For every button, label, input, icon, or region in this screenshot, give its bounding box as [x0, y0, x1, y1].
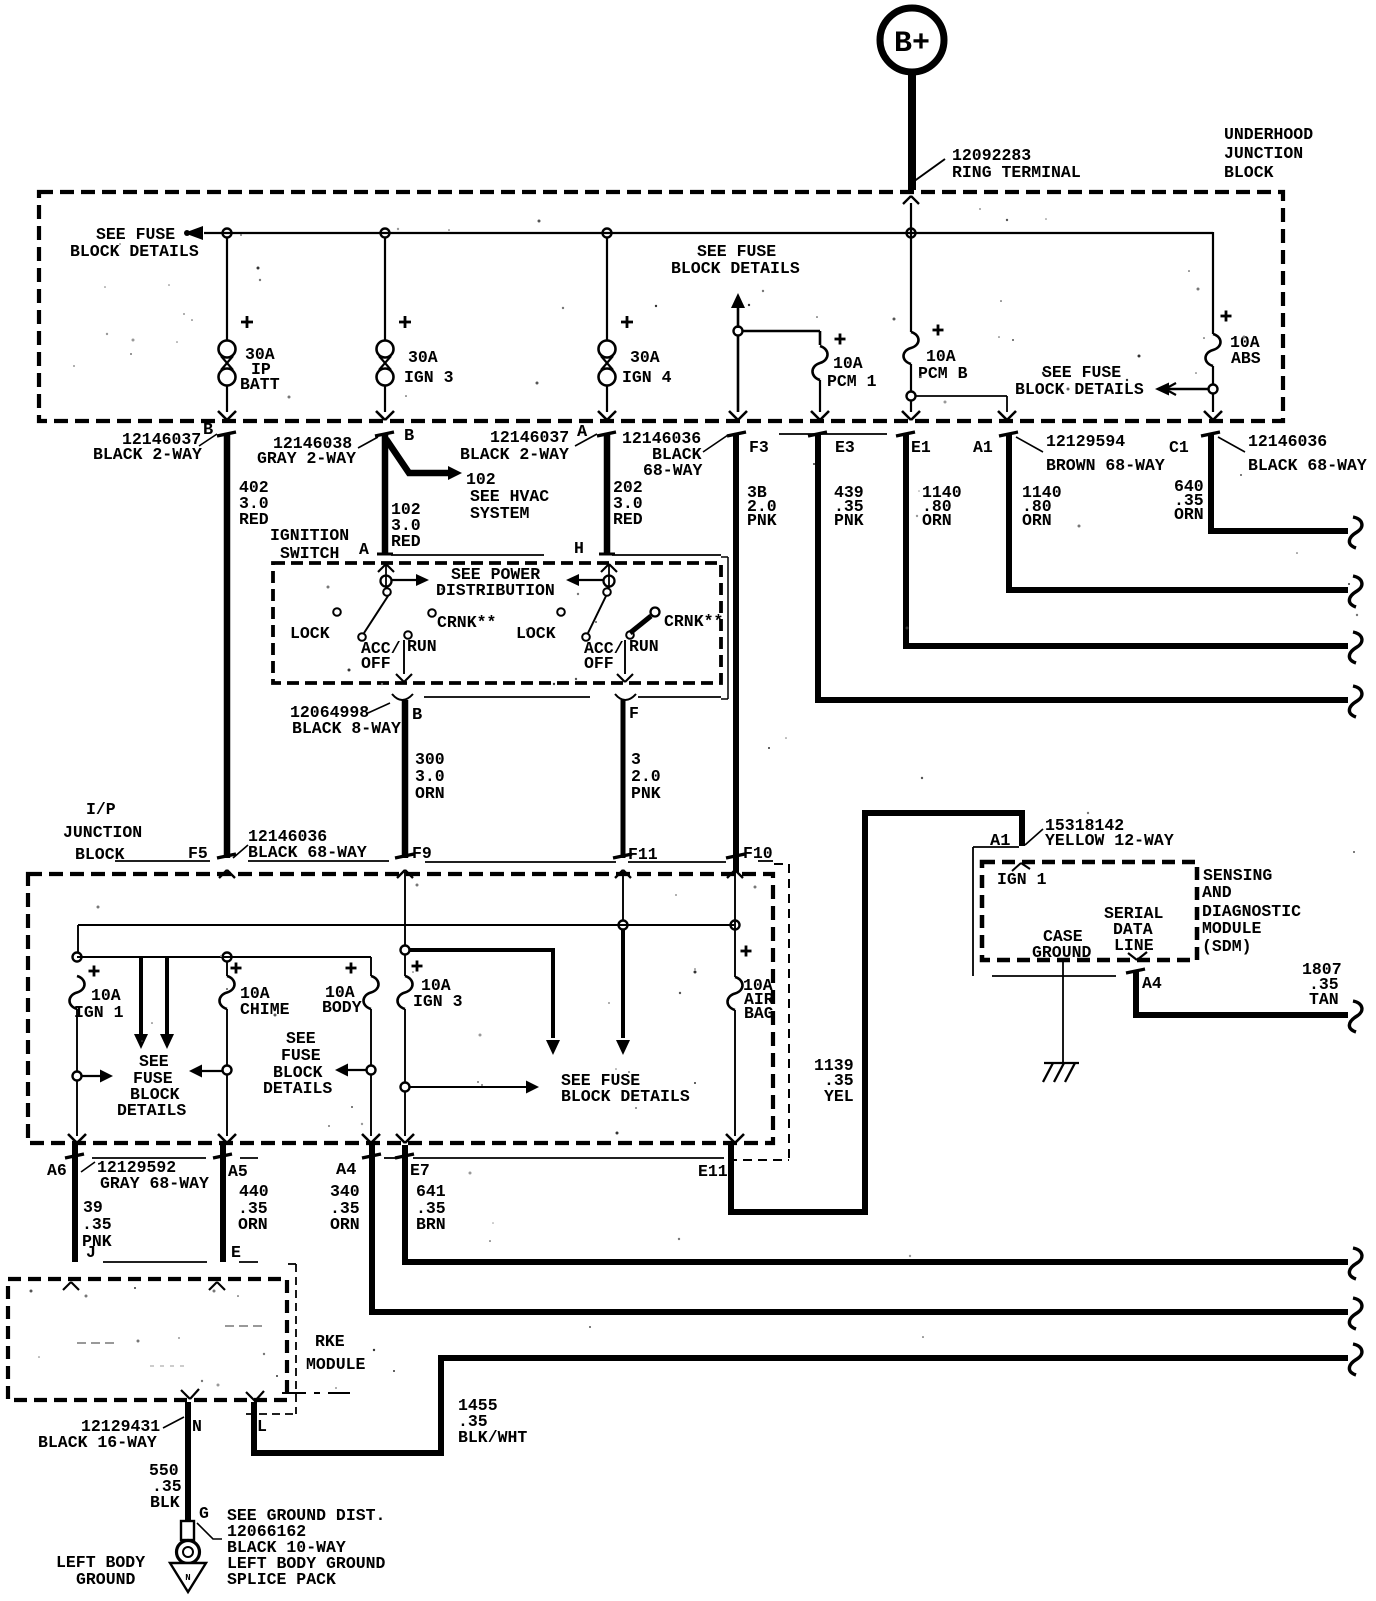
switch 2 RUN position [626, 631, 634, 639]
strip line ignition bottom F [638, 696, 721, 698]
fuse 10A IGN 3 (IP) [404, 954, 406, 976]
connector foot F10 [726, 854, 745, 858]
arrow up to fuse details [731, 293, 745, 308]
switch 1 CRNK position [428, 609, 436, 617]
ground chassis symbol [1044, 1062, 1079, 1064]
switch 2 lever [588, 596, 606, 633]
pin notch serial data line [1128, 953, 1137, 960]
leader splice pack [197, 1523, 222, 1539]
arrow down branch 2 to fuse details [165, 958, 169, 1035]
SDM inner dashed box [982, 862, 1197, 960]
svg-text:IGN 1: IGN 1 [74, 1003, 124, 1022]
wire 439 PNK E3 to right edge [818, 434, 1348, 700]
svg-text:RUN: RUN [407, 637, 437, 656]
svg-text:RED: RED [391, 532, 421, 551]
node junction BODY arrow [367, 1066, 376, 1075]
switch 1 contact [385, 564, 387, 588]
arrow exit F3 [729, 411, 738, 420]
arrow IGN1 to fuse details [82, 1075, 101, 1077]
wire B+ drop inside box [910, 203, 912, 332]
svg-text:E1: E1 [911, 438, 931, 457]
arrow entry F5 [219, 870, 227, 878]
svg-text:ORN: ORN [415, 784, 445, 803]
svg-text:E7: E7 [410, 1161, 430, 1180]
svg-text:E3: E3 [835, 438, 855, 457]
svg-text:B+: B+ [894, 27, 930, 61]
svg-text:J: J [86, 1243, 96, 1262]
connector cup F ignition bottom [615, 694, 636, 700]
svg-text:GRAY 2-WAY: GRAY 2-WAY [257, 449, 356, 468]
wire bus drop to fuse ABS [1212, 232, 1214, 334]
svg-text:JUNCTION: JUNCTION [63, 823, 142, 842]
leader 12092283 ring terminal [913, 159, 945, 182]
svg-text:IGNITION: IGNITION [270, 526, 349, 545]
connector flare A6 [65, 1154, 84, 1158]
dash-dot continuation right of RKE [282, 1392, 306, 1394]
node junction bus/IGN4 [603, 229, 612, 238]
wire 1140 ORN E1 to right edge [906, 434, 1348, 646]
RKE faint interior marks [225, 1325, 266, 1327]
svg-text:A4: A4 [336, 1161, 356, 1180]
svg-text:GROUND: GROUND [76, 1570, 136, 1589]
ground splice triangle [170, 1563, 206, 1592]
svg-text:MODULE: MODULE [1202, 919, 1262, 938]
svg-text:BLACK 16-WAY: BLACK 16-WAY [38, 1433, 157, 1452]
wire fuse IGN 4 to connector A [606, 385, 608, 412]
wire IGN1 below fuse [76, 1009, 78, 1071]
fuse 30A IGN 3 [377, 341, 394, 358]
svg-text:YELLOW 12-WAY: YELLOW 12-WAY [1045, 831, 1174, 850]
switch 1 ACC contact [358, 633, 366, 641]
svg-text:DETAILS: DETAILS [263, 1079, 332, 1098]
node junction PCM B / A1 link [907, 392, 916, 401]
svg-text:BLK: BLK [150, 1493, 180, 1512]
node junction CHIME arrow [223, 1066, 232, 1075]
wire 1140 ORN A1 to right edge [1009, 434, 1348, 590]
wire IGN3 to exit E7 [404, 1092, 406, 1136]
strip line ignition top H [612, 554, 721, 556]
svg-text:68-WAY: 68-WAY [643, 461, 703, 480]
svg-text:E: E [231, 1243, 241, 1262]
wire 550 BLK N to ground [185, 1402, 191, 1521]
arrow exit E3 [811, 411, 820, 420]
pin notch RKE N [181, 1390, 190, 1399]
svg-text:C1: C1 [1169, 438, 1189, 457]
switch 1 LOCK position [333, 608, 341, 616]
svg-text:BRN: BRN [416, 1215, 446, 1234]
arrow exit IP BATT [218, 411, 227, 420]
wire fuse ABS to connector C1 [1212, 393, 1214, 412]
connector flare A5 [213, 1154, 232, 1158]
wire PCM B to connector E1 [910, 400, 912, 412]
svg-text:L: L [257, 1417, 267, 1436]
svg-text:BATT: BATT [240, 375, 280, 394]
svg-text:ORN: ORN [1174, 505, 1204, 524]
I/P block outer dashed edge [788, 864, 790, 1160]
fuse 10A PCM 1 [813, 346, 828, 380]
node junction F5/y957 [223, 953, 232, 962]
svg-text:A1: A1 [990, 832, 1010, 851]
arrow entry F9 [397, 870, 405, 878]
offpage hook 1455 wire [1349, 1344, 1362, 1375]
svg-text:BLK/WHT: BLK/WHT [458, 1428, 527, 1447]
wire IGN1 to exit A6 [76, 1081, 78, 1136]
scan speckles [448, 229, 450, 231]
svg-text:F11: F11 [628, 845, 658, 864]
svg-text:BLACK 2-WAY: BLACK 2-WAY [93, 445, 202, 464]
svg-text:BLACK 2-WAY: BLACK 2-WAY [460, 445, 569, 464]
wire 39 PNK A6 to RKE J [72, 1145, 78, 1262]
svg-text:GRAY 68-WAY: GRAY 68-WAY [100, 1174, 209, 1193]
node junction ABS / fuse details [1209, 385, 1218, 394]
svg-text:E11: E11 [698, 1162, 728, 1181]
svg-text:12146036: 12146036 [1248, 432, 1327, 451]
svg-text:ORN: ORN [1022, 511, 1052, 530]
wire CHIME below fuse [226, 1009, 228, 1066]
svg-text:G: G [199, 1504, 209, 1523]
underhood junction block dashed box [39, 192, 1283, 421]
strip line ignition bottom B [424, 696, 590, 698]
svg-text:A5: A5 [228, 1162, 248, 1181]
strip lines IP top [115, 860, 210, 862]
wire 300 ORN B to F9 [402, 700, 409, 858]
svg-text:N: N [192, 1417, 202, 1436]
wire 1455 BLK/WHT L to right edge [254, 1358, 1348, 1453]
svg-text:A4: A4 [1142, 974, 1162, 993]
svg-text:JUNCTION: JUNCTION [1224, 144, 1303, 163]
node junction y925/F10 [731, 921, 740, 930]
wire fuse ABS down [1212, 366, 1214, 385]
arrow exit A4 [362, 1134, 371, 1143]
wire B+ stem [908, 73, 916, 190]
svg-text:CRNK**: CRNK** [664, 612, 723, 631]
fuse 10A ABS [1206, 334, 1221, 366]
wire branch 102 to HVAC [386, 439, 450, 473]
svg-text:GROUND: GROUND [1032, 943, 1092, 962]
connector flare E7 [395, 1154, 414, 1158]
svg-text:SYSTEM: SYSTEM [470, 504, 530, 523]
node junction y925/F11 [619, 921, 628, 930]
arrow to SEE FUSE BLOCK DETAILS (left) [184, 226, 203, 240]
wire 440 ORN A5 to RKE E [220, 1145, 226, 1262]
node junction bus/IGN3 [381, 229, 390, 238]
svg-text:I/P: I/P [86, 800, 116, 819]
arrow exit E7 [396, 1134, 405, 1143]
wire fuse PCM 1 to connector E3 [819, 380, 821, 412]
svg-text:TAN: TAN [1309, 990, 1339, 1009]
fuse 10A IGN 1 [70, 976, 85, 1009]
svg-text:IGN 1: IGN 1 [997, 870, 1047, 889]
wire thin bus y925 [78, 924, 734, 926]
svg-text:BLOCK DETAILS: BLOCK DETAILS [70, 242, 199, 261]
svg-text:BROWN 68-WAY: BROWN 68-WAY [1046, 456, 1165, 475]
arrow entry F11 [615, 870, 623, 878]
fuse 30A IGN 4 [599, 341, 616, 358]
svg-text:ABS: ABS [1231, 349, 1261, 368]
switch 2 entry arrow [601, 564, 609, 572]
wire CHIME to exit A5 [226, 1075, 228, 1136]
svg-text:A1: A1 [973, 438, 993, 457]
arrow CHIME to fuse details [201, 1070, 222, 1072]
svg-text:LOCK: LOCK [290, 624, 330, 643]
ring terminal left body ground [181, 1521, 194, 1540]
offpage hook E3 [1349, 686, 1362, 717]
node junction bus/IP-BATT [223, 229, 232, 238]
switch 1 arrow to SEE POWER DISTRIBUTION [392, 579, 417, 581]
switch 1 entry arrow [378, 564, 386, 572]
svg-text:H: H [574, 539, 584, 558]
strip line A4-E7 [384, 1157, 398, 1159]
svg-text:PNK: PNK [834, 511, 864, 530]
B+ battery terminal [880, 8, 944, 72]
svg-text:CHIME: CHIME [240, 1000, 290, 1019]
svg-text:LINE: LINE [1114, 936, 1154, 955]
svg-text:PNK: PNK [631, 784, 661, 803]
switch 2 arrow to SEE POWER DISTRIBUTION [578, 579, 603, 581]
wire 641 BRN E7 to right edge [405, 1145, 1348, 1262]
wire 102 RED connector B to ignition switch A [382, 434, 389, 553]
svg-text:BLACK 68-WAY: BLACK 68-WAY [1248, 456, 1367, 475]
pin caret IGN 1 [1012, 863, 1021, 871]
wire to fuse IGN 4 [606, 237, 608, 341]
arrow exit A1 [998, 411, 1007, 420]
wire branch to fuse PCM 1 [742, 330, 820, 333]
fuse 10A CHIME [226, 961, 228, 976]
offpage hook serial data [1349, 1001, 1362, 1032]
svg-text:YEL: YEL [824, 1087, 854, 1106]
svg-text:B: B [412, 706, 422, 725]
svg-text:(SDM): (SDM) [1202, 937, 1252, 956]
wire 402 RED connector B to F5 [224, 434, 231, 858]
svg-text:RING TERMINAL: RING TERMINAL [952, 163, 1081, 182]
svg-text:OFF: OFF [361, 654, 391, 673]
svg-text:BLACK 68-WAY: BLACK 68-WAY [248, 843, 367, 862]
svg-text:A: A [359, 540, 369, 559]
connector E3 [808, 432, 827, 436]
arrow exit E11 [726, 1134, 735, 1143]
node junction IGN1 arrow [73, 1072, 82, 1081]
arrow exit C1 [1204, 411, 1213, 420]
svg-text:IGN 4: IGN 4 [622, 368, 672, 387]
svg-text:RED: RED [613, 510, 643, 529]
arrow exit A6 [68, 1134, 77, 1143]
svg-text:RUN: RUN [629, 637, 659, 656]
svg-text:N: N [185, 1573, 190, 1583]
arrow to SEE FUSE BLOCK DETAILS (underhood right) [1162, 388, 1208, 390]
wire BODY to exit A4 [370, 1075, 372, 1136]
svg-text:B: B [404, 427, 414, 446]
svg-text:10A: 10A [833, 354, 863, 373]
svg-text:DISTRIBUTION: DISTRIBUTION [436, 581, 555, 600]
wire fuse IP BATT to connector B [226, 385, 228, 412]
wire to fuse IGN 3 [384, 237, 386, 341]
offpage hook A4 wire [1349, 1298, 1362, 1329]
arrow entry RKE J [63, 1282, 71, 1290]
svg-text:ORN: ORN [922, 511, 952, 530]
svg-text:F: F [629, 704, 639, 723]
svg-text:SWITCH: SWITCH [280, 544, 339, 563]
wire thick branch IGN3 to details arrow [409, 950, 553, 1038]
arrow entry RKE E [209, 1282, 217, 1290]
switch 1 RUN position [404, 631, 412, 639]
wire 1139 YEL E11 to SDM A1 [731, 813, 1022, 1212]
wire case ground [1062, 962, 1064, 1063]
strip line F3-E1 [779, 433, 887, 435]
switch 1 lever [364, 596, 388, 633]
svg-text:DETAILS: DETAILS [117, 1101, 186, 1120]
I/P junction block dashed box [28, 874, 773, 1143]
wire 3B PNK F3 to F10 [733, 434, 739, 872]
connector B (12146038 gray 2-way) [375, 432, 394, 436]
wire BODY below fuse [370, 1009, 372, 1066]
svg-text:AND: AND [1202, 883, 1232, 902]
wire F3 inside box [737, 336, 740, 412]
wire F9 drop [404, 872, 406, 946]
wire 3 PNK F to F11 [621, 700, 626, 858]
connector flare A4 SDM [1126, 969, 1145, 973]
connector B (12146037 black 2-way) [217, 432, 236, 436]
svg-text:SPLICE PACK: SPLICE PACK [227, 1570, 336, 1589]
node junction bus/B+ [907, 229, 916, 238]
node junction IGN3 top [401, 946, 410, 955]
wire link PCM B to A1 [916, 395, 1007, 397]
wire fuse PCM B down [910, 364, 912, 392]
svg-text:F9: F9 [412, 844, 432, 863]
switch 1 RUN output arrow [403, 640, 405, 674]
offpage hook A1 [1349, 576, 1362, 607]
arrow down branch 1 to fuse details [139, 958, 143, 1035]
svg-text:BLOCK: BLOCK [1224, 163, 1274, 182]
connector C1 (12146036 black 68-way) [1201, 432, 1220, 436]
arrow F11 down to fuse details [621, 929, 625, 1038]
connector A (12146037 black 2-way) [597, 432, 616, 436]
arrow B+ entry into box [903, 196, 911, 204]
switch 2 LOCK position [557, 608, 565, 616]
offpage hook E7 wire [1349, 1248, 1362, 1279]
switch 2 ACC contact [582, 633, 590, 641]
strip line ignition top A [391, 554, 544, 556]
offpage hook C1 [1349, 517, 1362, 548]
offpage hook E1 [1349, 632, 1362, 663]
connector E1 [896, 432, 915, 436]
svg-text:ORN: ORN [238, 1215, 268, 1234]
svg-text:BLACK 8-WAY: BLACK 8-WAY [292, 719, 401, 738]
svg-text:BAG: BAG [744, 1004, 774, 1023]
wire 1807 TAN serial data to right edge [1136, 970, 1348, 1015]
svg-text:BLOCK DETAILS: BLOCK DETAILS [561, 1087, 690, 1106]
wire 340 ORN A4 to right edge [372, 1145, 1348, 1312]
pin notch RKE L [246, 1392, 255, 1401]
ignition switch dashed box [273, 563, 721, 683]
switch 2 RUN output arrow [624, 640, 626, 674]
svg-text:RKE: RKE [315, 1332, 345, 1351]
svg-text:RED: RED [239, 510, 269, 529]
switch 2 contact [608, 564, 610, 588]
svg-text:PCM B: PCM B [918, 364, 968, 383]
connector foot F9 [395, 854, 414, 858]
connector foot F5 [217, 854, 236, 858]
wire F11 drop [622, 872, 624, 921]
wire 640 ORN C1 to right edge [1211, 434, 1348, 531]
arrow exit IGN 3 [376, 411, 385, 420]
fuse 10A PCM B [904, 332, 919, 364]
wire 202 RED connector A to ignition switch H [604, 434, 611, 553]
fuse 10A BODY [370, 957, 372, 976]
SDM outer thin box [973, 846, 1019, 848]
svg-text:PNK: PNK [747, 511, 777, 530]
svg-text:PCM 1: PCM 1 [827, 372, 877, 391]
wire bus B+ horizontal [204, 232, 1213, 234]
svg-text:IGN 3: IGN 3 [413, 992, 463, 1011]
arrow IGN3 to fuse details [410, 1086, 527, 1088]
svg-text:IGN 3: IGN 3 [404, 368, 454, 387]
connector F3 (12146036 black 68-way) [727, 432, 746, 436]
svg-text:BODY: BODY [322, 998, 362, 1017]
svg-text:UNDERHOOD: UNDERHOOD [1224, 125, 1313, 144]
svg-text:BLOCK DETAILS: BLOCK DETAILS [671, 259, 800, 278]
connector cup B ignition bottom [392, 694, 413, 700]
arrow exit IGN 4 [598, 411, 607, 420]
connector foot F11 [613, 854, 632, 858]
fuse 10A AIR BAG [728, 977, 743, 1010]
arrow exit A5 [218, 1134, 227, 1143]
connector flare A4 [362, 1154, 381, 1158]
RKE module dashed box [8, 1279, 287, 1400]
wire IGN3 below fuse [404, 1009, 406, 1082]
node junction IGN3 arrow [401, 1083, 410, 1092]
svg-text:MODULE: MODULE [306, 1355, 366, 1374]
strip lines IP bottom [92, 1157, 206, 1159]
node junction IGN1 top [73, 953, 82, 962]
fuse 30A IP BATT [219, 341, 236, 358]
wire F10 drop [734, 872, 736, 977]
svg-text:A6: A6 [47, 1161, 67, 1180]
RKE outer dashed edge [295, 1264, 297, 1414]
svg-text:BLOCK DETAILS: BLOCK DETAILS [1015, 380, 1144, 399]
svg-text:F3: F3 [749, 438, 769, 457]
wire AIR BAG to exit E11 [734, 1010, 736, 1136]
strip line RKE top [103, 1261, 207, 1263]
svg-text:30A: 30A [408, 348, 438, 367]
svg-text:30A: 30A [630, 348, 660, 367]
arrow entry F10 [727, 870, 735, 878]
node junction F3/PCM1 [734, 327, 743, 336]
svg-text:F10: F10 [743, 844, 773, 863]
svg-text:CRNK**: CRNK** [437, 613, 496, 632]
svg-text:12129594: 12129594 [1046, 432, 1125, 451]
svg-text:OFF: OFF [584, 654, 614, 673]
svg-text:ORN: ORN [330, 1215, 360, 1234]
ignition switch outer edge [727, 557, 729, 699]
svg-text:LOCK: LOCK [516, 624, 556, 643]
wire thin bus y957 [77, 956, 371, 958]
switch 2 CRNK lever and position [630, 616, 651, 633]
wire fuse IGN 3 to connector B [384, 385, 386, 412]
arrow BODY to fuse details [347, 1069, 366, 1071]
arrow exit E1 [902, 411, 911, 420]
connector A1 (12129594 brown 68-way) [999, 432, 1018, 436]
wire to fuse IP BATT [226, 237, 228, 341]
